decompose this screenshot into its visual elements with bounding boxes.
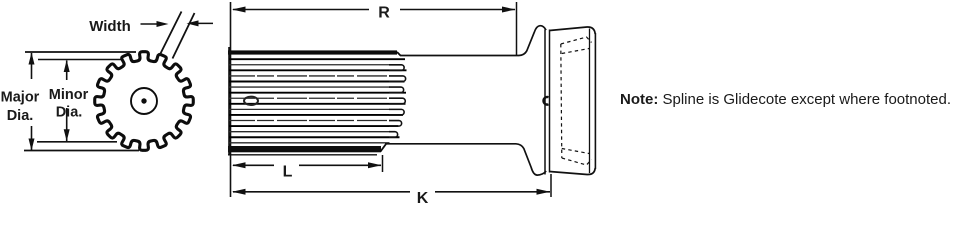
gear hub circle <box>131 88 157 114</box>
major diameter top extension line <box>25 51 136 53</box>
R dimension line left segment <box>233 9 369 11</box>
K dimension line right segment <box>435 191 550 193</box>
K right arrowhead <box>537 189 551 195</box>
bottom edge step up to shaft <box>381 144 387 152</box>
plain shaft top edge <box>400 55 519 57</box>
tube outer top edge <box>550 27 596 34</box>
L dimension line right segment <box>299 164 381 166</box>
spline tooth lines <box>229 59 407 143</box>
svg-text:Width: Width <box>89 18 131 35</box>
Minor Dia. lower arrow <box>66 108 68 141</box>
hidden line: bore top inner <box>562 49 589 54</box>
svg-text:L: L <box>283 163 293 180</box>
svg-text:R: R <box>378 4 390 21</box>
hidden line: bore vertical <box>561 44 562 158</box>
minor diameter bottom extension line <box>37 141 117 143</box>
tube right end outer edge <box>594 33 596 169</box>
spline body left edge <box>228 47 230 155</box>
tube outer bottom edge <box>550 168 596 175</box>
R dimension right extension line <box>516 2 518 55</box>
tube rim left face outer line <box>544 30 546 175</box>
spline body top thick edge <box>228 50 397 54</box>
weld bead mark on rim <box>543 97 548 105</box>
svg-text:Dia.: Dia. <box>56 105 83 121</box>
plain shaft bottom edge <box>385 143 516 145</box>
hidden line: bore bottom inner <box>562 149 589 154</box>
R left arrowhead <box>232 7 246 13</box>
top edge step down to shaft <box>397 52 401 56</box>
L dimension right extension line <box>382 155 384 172</box>
svg-text:Minor: Minor <box>49 87 89 103</box>
tube rim left face inner line <box>549 30 551 173</box>
major diameter bottom extension line <box>24 150 139 152</box>
width dimension left arrow <box>141 23 161 25</box>
note text <box>620 91 951 108</box>
Major Dia. upper arrow <box>31 53 33 79</box>
L left arrowhead <box>232 162 246 168</box>
width extension line left <box>160 12 182 56</box>
gear center dot <box>141 98 146 103</box>
Major Dia. lower arrow <box>31 126 33 150</box>
width extension line right <box>173 13 195 59</box>
L right arrowhead <box>368 162 382 168</box>
Minor Dia. upper arrow <box>66 61 68 81</box>
hidden line: bore bottom outer <box>562 158 592 165</box>
spline cross-section gear outline <box>95 52 194 151</box>
minor diameter top extension line <box>38 59 122 61</box>
K left arrowhead <box>232 189 246 195</box>
R right arrowhead <box>502 7 516 13</box>
L dimension line left segment <box>233 164 274 166</box>
spline body bottom thick edge <box>228 146 381 152</box>
svg-text:Major: Major <box>1 90 40 106</box>
svg-text:K: K <box>417 190 429 207</box>
flare to tube seat top <box>519 26 546 56</box>
tube right end inner edge <box>589 29 591 174</box>
spline body bottom thin root line <box>228 154 377 156</box>
hidden line: bore top outer <box>561 37 592 44</box>
K dimension right extension line <box>550 174 552 197</box>
K dimension line left segment <box>233 191 410 193</box>
R dimension line right segment <box>400 9 515 11</box>
scan smudge on spline <box>244 97 258 105</box>
flare to tube seat bottom <box>516 144 546 175</box>
svg-text:Dia.: Dia. <box>7 108 34 124</box>
spline tooth runout caps <box>389 65 406 137</box>
width dimension right arrow <box>192 22 213 24</box>
left extension/edge vertical line <box>230 2 232 197</box>
